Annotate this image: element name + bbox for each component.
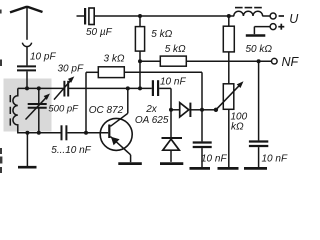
minus sign xyxy=(279,15,284,17)
arrowhead C3 30pF xyxy=(68,76,74,83)
capacitor C2 500pF variable (tuning) xyxy=(26,88,47,132)
scan artifacts left edge xyxy=(0,10,2,174)
ground (C7) xyxy=(244,167,267,170)
antenna ANT xyxy=(10,6,43,40)
core of L1 (dashed) xyxy=(9,95,11,126)
svg-text:5 kΩ: 5 kΩ xyxy=(165,44,186,55)
diode D1 OA625 (series) xyxy=(171,103,202,117)
ground (R4) xyxy=(218,167,239,170)
wire bias drop R1 to base xyxy=(85,72,87,133)
junction collector / feedback line xyxy=(126,86,130,90)
svg-text:10 nF: 10 nF xyxy=(160,77,186,88)
core of L2 (dashed) xyxy=(235,7,262,9)
wire choke to minus terminal xyxy=(262,15,270,17)
arrowhead C2 500pF xyxy=(44,94,50,101)
resistor R3 5kOhm (to detector) xyxy=(160,56,186,66)
junction wiper tap xyxy=(214,108,218,112)
junction R2 / NF rail xyxy=(138,59,142,63)
junction bias / base line xyxy=(84,131,88,135)
junction top rail / R2 xyxy=(138,14,142,18)
svg-text:U: U xyxy=(289,12,299,26)
svg-text:NF: NF xyxy=(282,55,300,69)
diode D2 OA625 (shunt) xyxy=(162,110,183,162)
wire feedback line C3 to C5 xyxy=(68,87,151,89)
arrowhead R4 wiper xyxy=(237,81,244,88)
svg-text:500 pF: 500 pF xyxy=(48,104,79,115)
potentiometer R4 100kOhm wiper arrow xyxy=(216,86,239,110)
wire C1 to tank top xyxy=(26,71,28,88)
transistor Q1 OC872 (PNP) xyxy=(86,118,132,162)
ground (+U chassis) xyxy=(246,27,265,36)
svg-text:5 kΩ: 5 kΩ xyxy=(151,29,172,40)
ground (tank) xyxy=(18,133,37,167)
wire tank top rail xyxy=(18,87,64,89)
svg-text:10 pF: 10 pF xyxy=(30,52,56,63)
inductor L2 RF choke xyxy=(234,11,263,16)
capacitor C4 50uF electrolytic xyxy=(77,8,95,25)
junction C2 / tank bottom xyxy=(37,131,41,135)
resistor R1 3kOhm xyxy=(86,67,202,110)
capacitor C3 30pF trimmer (feedback) xyxy=(54,80,71,100)
wire antenna to C1 xyxy=(26,47,28,66)
svg-text:OC 872: OC 872 xyxy=(89,105,124,116)
junction C2 / tank top xyxy=(37,86,41,90)
junction top rail / R5 xyxy=(227,14,231,18)
svg-text:10 nF: 10 nF xyxy=(262,154,288,165)
terminal +U xyxy=(270,24,276,30)
wire NF rail left xyxy=(140,60,160,62)
resistor R5 50kOhm xyxy=(223,16,234,84)
junction R2 drop / feedback line xyxy=(138,86,142,90)
arrowhead Q1 emitter (PNP) xyxy=(111,137,120,146)
svg-text:kΩ: kΩ xyxy=(231,122,244,133)
capacitor C1 10pF xyxy=(17,66,36,70)
wire +U terminal to chassis xyxy=(254,26,270,28)
resistor R2 5kOhm (collector load) xyxy=(135,16,144,88)
capacitor C7 10nF (output filter) xyxy=(249,61,268,167)
antenna plug connector xyxy=(22,43,31,47)
potentiometer R4 100kOhm body xyxy=(223,84,234,167)
svg-text:OA 625: OA 625 xyxy=(135,115,169,126)
junction D1 / C6 / R1 xyxy=(200,108,204,112)
tuned-circuit shaded region xyxy=(4,79,52,132)
svg-text:30 pF: 30 pF xyxy=(58,64,84,75)
svg-text:50 kΩ: 50 kΩ xyxy=(246,44,273,55)
wire NF rail right xyxy=(186,60,271,62)
inductor L1 tank coil xyxy=(13,88,18,133)
wire top supply rail xyxy=(94,15,234,17)
junction C5 / D1 / D2 xyxy=(169,108,173,112)
ground (D2) xyxy=(160,162,183,165)
capacitor C6 10nF (detector filter) xyxy=(193,110,212,167)
wire detector node to wiper xyxy=(202,109,216,111)
wire tank bottom rail xyxy=(18,132,61,134)
junction ground drop / tank bottom xyxy=(25,131,29,135)
ground (emitter) xyxy=(118,162,142,165)
svg-text:2x: 2x xyxy=(145,104,158,115)
plus sign xyxy=(278,24,284,30)
svg-text:3 kΩ: 3 kΩ xyxy=(104,54,125,65)
ground (C6) xyxy=(190,167,211,170)
junction NF rail / C7 xyxy=(257,59,261,63)
wire C8 to base node xyxy=(67,132,86,134)
junction antenna / tank top xyxy=(25,86,29,90)
wire collector drop xyxy=(110,88,127,126)
svg-text:50 µF: 50 µF xyxy=(86,27,113,38)
terminal NF output xyxy=(272,58,278,64)
terminal -U xyxy=(270,13,276,19)
svg-text:5...10 nF: 5...10 nF xyxy=(51,145,91,156)
capacitor C8 5...10nF xyxy=(62,125,67,140)
capacitor C5 10nF coupling xyxy=(153,80,171,110)
svg-text:10 nF: 10 nF xyxy=(201,154,227,165)
